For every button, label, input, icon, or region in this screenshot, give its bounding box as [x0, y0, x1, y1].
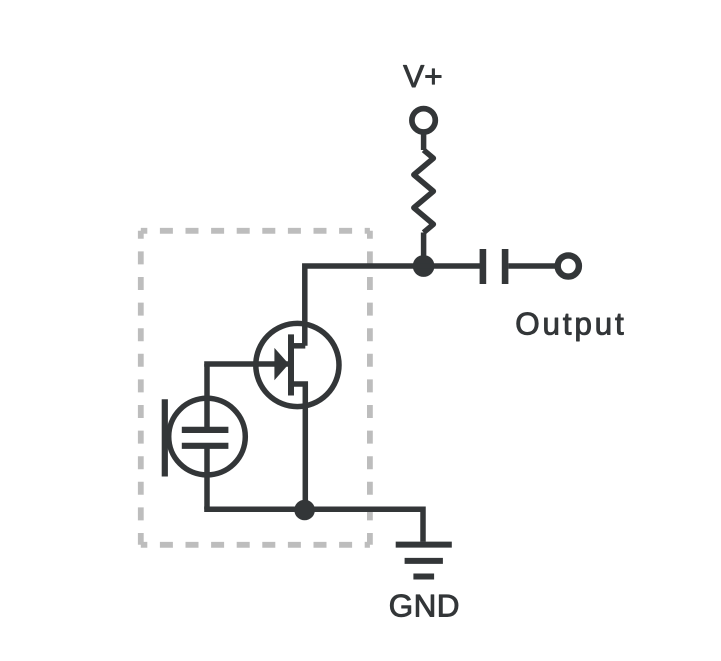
label Output — [517, 313, 624, 342]
transistor Q gate arrow — [274, 348, 288, 380]
capacitor C (output coupling) left plate — [480, 249, 487, 284]
resistor R (drain load) — [414, 150, 434, 233]
node (source-ground junction) — [294, 500, 315, 521]
dashed enclosure (electret capsule boundary) — [141, 231, 370, 545]
wire (drain rail: JFET corner to coupling cap) — [305, 266, 480, 346]
microphone element: bottom plate — [182, 443, 229, 449]
label GND — [390, 595, 458, 617]
microphone element: capsule circle — [169, 398, 246, 475]
transistor Q source lead — [291, 384, 305, 509]
transistor Q channel bar — [288, 334, 294, 395]
node (drain junction) — [413, 255, 435, 277]
capacitor C (output coupling) right plate — [502, 249, 509, 284]
wire (cap to output terminal) — [508, 263, 557, 269]
microphone element: diaphragm bar — [162, 399, 168, 476]
wire (mic bottom plate to ground rail) — [204, 446, 210, 510]
wire (gate corner down to mic top plate) — [204, 364, 210, 430]
wire (ground rail) — [204, 509, 423, 542]
wire (resistor to drain node) — [421, 233, 427, 267]
terminal Output — [558, 255, 579, 276]
transistor Q drain lead — [291, 343, 305, 349]
label V+ — [403, 65, 441, 87]
ground — [396, 545, 452, 577]
transistor Q gate wire (from mic) — [204, 361, 288, 367]
transistor Q (JFET) body — [256, 323, 339, 406]
wire (V+ terminal to resistor) — [421, 132, 427, 150]
terminal V+ — [412, 109, 435, 132]
microphone element: top plate — [182, 427, 229, 433]
